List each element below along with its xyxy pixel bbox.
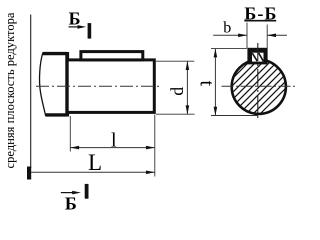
dimension line l [70, 146, 155, 150]
shaft section circle with hatching [225, 40, 299, 121]
section mark B top: arrow [69, 25, 87, 29]
dimension line b right part [267, 34, 287, 38]
section mark B bottom: cut bar [85, 184, 89, 199]
svg-text:Б: Б [65, 194, 77, 214]
section horizontal centerline [222, 85, 296, 87]
label l [111, 129, 117, 151]
shaft left segment (inside gearbox) [40, 52, 68, 116]
svg-text:L: L [88, 150, 102, 175]
section mark B bottom: letter [65, 194, 77, 214]
dimension L left tick [27, 167, 31, 180]
svg-text:t: t [196, 81, 218, 87]
t extension line top [211, 48, 247, 50]
b extension line left [246, 23, 248, 49]
key cross-section in keyway [247, 48, 267, 65]
label d [167, 87, 187, 96]
dimension line d [186, 61, 190, 114]
label b [223, 20, 231, 37]
section mark B bottom: arrow [61, 191, 81, 195]
b extension line right [266, 25, 268, 49]
extension line at shaft right end [154, 115, 156, 177]
label L [88, 150, 102, 175]
svg-text:d: d [167, 87, 187, 96]
dimension line L [31, 171, 155, 175]
t extension line bottom [211, 115, 258, 117]
section mark B top: cut bar [88, 23, 92, 38]
section title B-B [244, 4, 276, 24]
shaft cylinder (output end) [67, 60, 154, 113]
extension line at shaft shoulder [69, 116, 71, 152]
gearbox middle plane label [3, 12, 17, 168]
section mark B top: letter [69, 9, 81, 29]
d extension line top [156, 60, 194, 62]
svg-text:b: b [223, 20, 231, 37]
dimension line t [214, 49, 218, 116]
dimension line b left part [213, 34, 247, 38]
section vertical centerline [257, 43, 259, 120]
svg-text:средняя плоскость редуктора: средняя плоскость редуктора [3, 12, 17, 168]
label t [196, 81, 218, 87]
key (side view) [81, 52, 143, 60]
gearbox middle plane line [30, 15, 32, 169]
shaft shoulder line [65, 52, 69, 117]
d extension line bottom [156, 113, 195, 115]
svg-text:l: l [111, 129, 117, 151]
shaft centerline [36, 85, 161, 87]
